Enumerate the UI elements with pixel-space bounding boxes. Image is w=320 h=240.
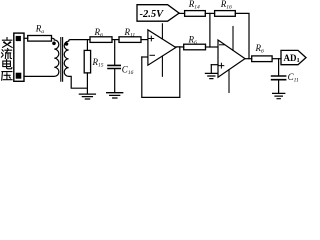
ground 2 bbox=[107, 93, 123, 98]
AD converter flag bbox=[281, 50, 306, 64]
wire junction from top rail down to minus node bbox=[209, 13, 211, 47]
terminal square bottom bbox=[16, 73, 22, 79]
ground 4 bbox=[273, 93, 285, 98]
svg-text:R11: R11 bbox=[124, 27, 136, 39]
U1 output wire bbox=[176, 46, 184, 48]
svg-text:R16: R16 bbox=[220, 0, 232, 11]
U1 power stub bottom bbox=[161, 56, 163, 76]
transformer secondary winding + top wire to node + bottom wire to ground joint bbox=[64, 40, 90, 89]
svg-text:C16: C16 bbox=[122, 65, 134, 77]
wire node down to R15 bbox=[86, 40, 88, 51]
wire R16 to output node bbox=[235, 13, 249, 58]
resistor R6b (between op-amps) bbox=[184, 44, 206, 50]
wire source to R14 bbox=[179, 12, 185, 14]
U1 feedback wire bbox=[142, 47, 180, 98]
U2 power stub bottom bbox=[228, 70, 230, 93]
capacitor C11 plates bbox=[272, 76, 286, 80]
U2 output wire bbox=[245, 58, 252, 60]
U1 power stub top bbox=[161, 24, 163, 39]
U2 power stub top bbox=[232, 27, 234, 51]
wire R11 to op-amp U1 + input bbox=[141, 39, 148, 41]
resistor R6 (rail) bbox=[90, 37, 112, 43]
label 电 (AC voltage text char 3) bbox=[3, 59, 12, 68]
voltage source -2.5V flag bbox=[137, 5, 179, 22]
transformer core bbox=[61, 38, 63, 82]
wire down to C11 bbox=[278, 59, 280, 75]
svg-text:C11: C11 bbox=[288, 72, 299, 84]
wire Ra to transformer primary + primary winding + wire back to connector bbox=[24, 38, 59, 76]
wire R6 to R1 bbox=[112, 39, 119, 41]
label 压 (AC voltage text char 4) bbox=[2, 72, 12, 81]
svg-text:R14: R14 bbox=[188, 0, 200, 11]
wire down to C16 bbox=[114, 40, 116, 65]
U1 plus sign bbox=[149, 36, 154, 41]
wire R7 to AD bbox=[272, 58, 281, 60]
svg-text:R15: R15 bbox=[92, 57, 104, 69]
svg-text:R6: R6 bbox=[188, 35, 198, 47]
resistor R16 bbox=[215, 11, 236, 17]
ground 3 bbox=[205, 73, 217, 78]
capacitor C16 plates bbox=[108, 65, 120, 68]
wire C16 to ground bbox=[114, 69, 116, 92]
resistor Ra bbox=[28, 36, 52, 42]
resistor R14 bbox=[185, 11, 206, 17]
op-amp U2 triangle bbox=[218, 40, 245, 77]
U1 minus sign bbox=[150, 54, 155, 56]
transformer polarity dot primary bbox=[52, 42, 56, 46]
terminal square top bbox=[16, 36, 21, 41]
wire R14 to R16 bbox=[205, 12, 214, 14]
U2 plus input wire bbox=[211, 64, 218, 66]
svg-text:R6: R6 bbox=[94, 27, 104, 39]
input connector box bbox=[14, 33, 24, 81]
label 交 (AC voltage text char 1) bbox=[2, 38, 12, 48]
svg-text:AD1: AD1 bbox=[284, 53, 300, 64]
resistor R11 (rail) bbox=[119, 37, 141, 43]
wire R6b to U2 minus input bbox=[206, 46, 219, 48]
wire plus input to ground bbox=[210, 65, 212, 73]
U2 plus sign bbox=[219, 63, 224, 68]
transformer polarity dot secondary bbox=[65, 42, 69, 46]
wire C11 to ground bbox=[278, 81, 280, 93]
ground 1 bbox=[79, 94, 95, 99]
wire connector to Ra bbox=[24, 37, 28, 39]
U2 minus sign bbox=[220, 44, 225, 46]
resistor R15 (vertical) bbox=[84, 50, 90, 73]
svg-text:Ra: Ra bbox=[35, 23, 45, 35]
svg-text:R6: R6 bbox=[255, 43, 265, 55]
U1 minus input wire bbox=[142, 56, 148, 58]
label 流 (AC voltage text char 2) bbox=[1, 49, 11, 59]
op-amp U1 triangle bbox=[148, 30, 176, 65]
resistor R7 bbox=[252, 56, 272, 62]
wire R15 to ground bbox=[86, 73, 88, 94]
svg-text:-2.5V: -2.5V bbox=[140, 9, 165, 20]
